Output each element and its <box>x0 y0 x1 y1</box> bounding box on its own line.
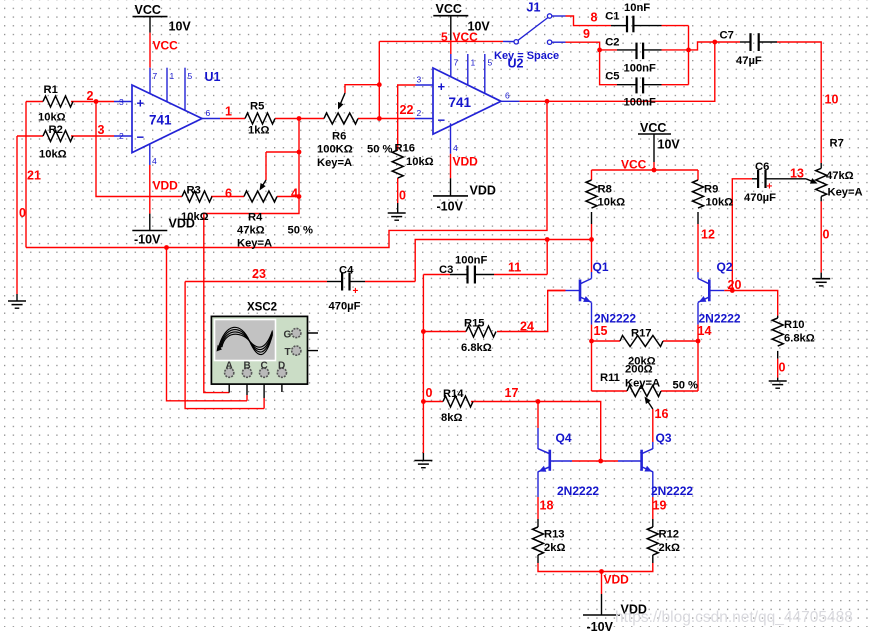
wire Q1 base red <box>548 290 566 292</box>
svg-text:6: 6 <box>225 187 232 201</box>
wire R17 left lead <box>592 340 621 342</box>
wire R16 gnd black <box>397 203 399 213</box>
wire C5 left black <box>617 84 637 86</box>
wire C2 left black <box>617 49 637 51</box>
svg-text:22: 22 <box>400 103 414 117</box>
wire U1 pin5 stub <box>184 68 186 111</box>
svg-text:741: 741 <box>149 113 172 128</box>
svg-text:18: 18 <box>540 499 554 513</box>
svg-text:-10V: -10V <box>437 200 464 214</box>
wire C7 left black <box>740 41 751 43</box>
svg-text:VDD: VDD <box>604 573 630 587</box>
svg-text:5: 5 <box>488 58 493 68</box>
svg-text:R8: R8 <box>598 184 612 196</box>
power bar VCC mid <box>638 133 671 135</box>
svg-text:8: 8 <box>591 11 598 25</box>
transistor Q4 <box>538 449 550 472</box>
wire R6 wiper to vertical <box>345 85 379 93</box>
wire Q2 emitter red <box>697 325 699 341</box>
wire C2 left red <box>600 49 617 51</box>
svg-text:2: 2 <box>417 108 422 118</box>
wire R8 bottom red <box>591 224 593 240</box>
wire U1 VDD red <box>149 165 151 214</box>
wire R10 bottom red <box>777 359 779 378</box>
capacitor C2 <box>637 43 644 60</box>
svg-text:7: 7 <box>153 71 158 81</box>
wire Q2 emitter blue <box>697 303 699 325</box>
wire J1 vertical x379 <box>378 41 380 118</box>
wire R1 right lead <box>71 101 96 103</box>
wire Q1 base stub <box>566 290 581 292</box>
svg-text:https://blog.csdn.net/qq_44705: https://blog.csdn.net/qq_44705488 <box>615 609 853 626</box>
svg-text:U1: U1 <box>205 70 221 84</box>
wire U1 pin6 stub <box>202 118 220 120</box>
svg-text:VCC: VCC <box>436 2 462 16</box>
svg-text:6: 6 <box>206 108 211 118</box>
svg-text:-10V: -10V <box>134 233 161 247</box>
wire U1 pin3 stub <box>114 101 132 103</box>
wire VCC stem mid red <box>653 162 655 170</box>
scope G lead <box>301 332 319 334</box>
svg-text:6.8kΩ: 6.8kΩ <box>784 333 815 345</box>
wire net21 feedback left vertical <box>25 102 27 248</box>
svg-text:16: 16 <box>655 407 669 421</box>
capacitor C6 <box>758 170 772 193</box>
wire R14 gnd red <box>422 452 424 454</box>
svg-text:7: 7 <box>454 58 459 68</box>
scope stub B <box>246 377 248 395</box>
wire Q4 base stub <box>550 460 572 462</box>
wire R1 left lead <box>26 101 43 103</box>
wire C6 left black <box>752 178 757 180</box>
svg-text:G: G <box>284 330 292 341</box>
svg-text:Key=A: Key=A <box>317 157 352 169</box>
wire Q4 collector red <box>537 402 539 429</box>
svg-text:100nF: 100nF <box>455 255 487 267</box>
potentiometer R7 wiper arrow <box>806 178 818 184</box>
svg-text:R2: R2 <box>49 124 63 136</box>
wire R3 right to R4 <box>211 196 244 198</box>
svg-text:R15: R15 <box>464 318 485 330</box>
wire R8 bottom black <box>591 212 593 224</box>
wire U2 pin1 stub <box>467 54 469 85</box>
svg-text:R13: R13 <box>544 529 565 541</box>
svg-text:VDD: VDD <box>169 217 195 231</box>
wire R14 left lead <box>423 401 443 403</box>
capacitor C7 <box>751 33 759 51</box>
svg-text:+: + <box>353 286 359 297</box>
resistor R2 <box>43 131 73 142</box>
resistor R13 <box>533 527 544 555</box>
wire R7 top black <box>820 163 822 168</box>
wire node1 to R5 <box>220 118 245 120</box>
junction VCC rail <box>652 168 657 173</box>
wire R11 right lead <box>661 390 698 392</box>
wire net23 C4 left <box>185 281 327 283</box>
wire U1 pin2 stub <box>114 135 132 137</box>
svg-text:T: T <box>285 347 291 358</box>
power bar VDD U1 <box>132 230 167 232</box>
power bar VCC U2 <box>433 15 468 17</box>
svg-text:VCC: VCC <box>621 158 647 172</box>
potentiometer R11 wiper arrow <box>645 397 653 410</box>
resistor R14 <box>443 396 473 407</box>
scope T lead <box>301 350 319 352</box>
wire R14 gnd black <box>422 453 424 461</box>
svg-text:1: 1 <box>471 58 476 68</box>
svg-text:VCC: VCC <box>453 30 479 44</box>
svg-text:14: 14 <box>698 324 712 338</box>
wire R7 bottom red <box>820 201 822 272</box>
wire caps to C7 node <box>689 42 715 50</box>
svg-text:C: C <box>261 361 268 372</box>
wire node20 to R10 <box>724 291 777 316</box>
wire U2 out to C7 <box>520 42 740 101</box>
svg-text:Key=A: Key=A <box>237 238 272 250</box>
wire U2 VDD red <box>450 154 452 178</box>
wire R12 bottom black <box>652 555 654 563</box>
svg-text:XSC2: XSC2 <box>247 302 277 314</box>
junction R4 wiper tie <box>297 150 302 155</box>
wire net11 rail <box>415 240 591 282</box>
wire U1 VCC stem red <box>149 33 151 68</box>
wire R7 bottom black2 <box>820 273 822 279</box>
wire node8 <box>566 16 612 26</box>
wire R4 wiper vertical <box>265 152 267 180</box>
svg-text:VCC: VCC <box>640 121 666 135</box>
svg-text:0: 0 <box>426 386 433 400</box>
svg-text:R10: R10 <box>784 319 805 331</box>
svg-text:470µF: 470µF <box>329 301 361 313</box>
wire C5 right red <box>662 84 689 86</box>
wire C7 right black <box>759 41 777 43</box>
svg-text:19: 19 <box>653 499 667 513</box>
resistor R8 <box>586 180 597 208</box>
wire C4 left black <box>327 281 342 283</box>
svg-text:6.8kΩ: 6.8kΩ <box>461 342 492 354</box>
svg-text:C3: C3 <box>439 264 453 276</box>
svg-text:20: 20 <box>728 278 742 292</box>
svg-text:11: 11 <box>508 261 521 275</box>
wire R13 top black <box>537 519 539 527</box>
wire R2 left lead <box>17 135 43 137</box>
svg-text:C1: C1 <box>605 11 619 23</box>
svg-text:J1: J1 <box>527 1 541 15</box>
power bar VDD bottom <box>583 614 620 616</box>
wire R5-R6 link <box>275 118 324 120</box>
svg-text:+: + <box>767 182 773 193</box>
wire Q1 collector blue <box>591 272 593 279</box>
wire R17 right lead <box>663 340 698 342</box>
svg-text:3: 3 <box>417 75 422 85</box>
resistor R17 <box>620 336 663 347</box>
junction R17 left <box>589 339 594 344</box>
scope stub B red <box>246 395 248 401</box>
scope stub C red <box>263 398 265 409</box>
svg-text:R6: R6 <box>332 131 346 143</box>
wire R10 top black <box>777 316 779 318</box>
svg-text:0: 0 <box>19 206 26 220</box>
svg-text:Q2: Q2 <box>717 260 733 274</box>
svg-text:2kΩ: 2kΩ <box>544 542 565 554</box>
svg-text:12: 12 <box>701 228 715 242</box>
junction R5-R6-R4 <box>297 116 302 121</box>
junction net21 scopeB <box>164 245 169 250</box>
svg-text:1: 1 <box>170 71 175 81</box>
svg-text:Key=A: Key=A <box>625 378 660 390</box>
wire R4 right up to node1 <box>277 119 299 197</box>
svg-text:17: 17 <box>505 386 519 400</box>
svg-text:15: 15 <box>594 324 608 338</box>
wire R10 bottom black1 <box>777 351 779 359</box>
svg-text:2N2222: 2N2222 <box>594 312 636 326</box>
wire U2 pin6 stub <box>501 100 520 102</box>
svg-text:10kΩ: 10kΩ <box>706 197 734 209</box>
svg-text:C2: C2 <box>605 37 619 49</box>
junction Q3Q4 base rail <box>598 459 603 464</box>
resistor R15 <box>466 326 496 337</box>
wire Q3 base stub <box>618 460 642 462</box>
wire C6 left vertical <box>732 179 752 291</box>
svg-text:R12: R12 <box>659 529 680 541</box>
wire node22 plus input <box>398 85 416 150</box>
svg-text:3: 3 <box>119 97 124 107</box>
wire C4 right lead red <box>365 281 415 283</box>
svg-text:B: B <box>244 361 251 372</box>
potentiometer R4 wiper arrow <box>260 180 267 191</box>
wire net21 horizontal <box>26 101 547 247</box>
wire R4 right down scopeA <box>204 197 299 393</box>
wire J1 throw2 out <box>552 41 566 43</box>
svg-text:0: 0 <box>779 361 786 375</box>
wire U1 pin7 stub <box>149 68 151 94</box>
wire R11 left vertical <box>591 341 593 391</box>
wire R2 right lead <box>71 135 114 137</box>
wire Q4 emitter red <box>537 497 539 519</box>
svg-text:Q1: Q1 <box>593 260 609 274</box>
wire C6 right black <box>766 178 806 180</box>
wire R9 bottom red to Q2 <box>697 224 699 272</box>
wire U2 pin3 stub <box>416 84 434 86</box>
wire Q3 collector blue <box>652 442 654 449</box>
wire VCC stem mid black <box>653 134 655 162</box>
svg-text:VCC: VCC <box>153 39 179 53</box>
wire U2 pin5 stub <box>484 54 486 93</box>
svg-text:10nF: 10nF <box>624 2 650 14</box>
wire C5 right black <box>643 84 661 86</box>
svg-text:47kΩ: 47kΩ <box>826 170 854 182</box>
wire U2 pin2 stub <box>415 118 433 120</box>
junction bottom rail <box>599 569 604 574</box>
wire Q1 emitter blue <box>591 303 593 325</box>
svg-text:R11: R11 <box>600 372 620 384</box>
wire R2 gnd black <box>16 294 18 301</box>
capacitor C3 <box>468 266 475 284</box>
resistor R9 <box>693 180 704 208</box>
potentiometer R4 body <box>244 191 277 202</box>
wire VDD3 stem black <box>601 594 603 615</box>
svg-text:10kΩ: 10kΩ <box>406 156 434 168</box>
junction C7 left <box>712 40 717 45</box>
junction R15 left <box>421 329 426 334</box>
svg-text:13: 13 <box>790 167 804 181</box>
capacitor C1 <box>627 16 633 33</box>
svg-text:4: 4 <box>291 187 298 201</box>
wire J1 pole line <box>379 40 503 42</box>
svg-text:−: − <box>137 130 145 145</box>
wire scopeB tap <box>167 248 248 401</box>
junction R17 right <box>696 339 701 344</box>
junction net17 mid <box>536 399 541 404</box>
wire net17 <box>471 402 601 462</box>
svg-text:2: 2 <box>119 131 124 141</box>
wire R4 wiper link <box>266 151 299 153</box>
resistor R10 <box>772 318 783 346</box>
wire C1 right black <box>633 25 661 27</box>
wire R9 bottom black <box>697 212 699 224</box>
svg-text:VDD: VDD <box>453 155 479 169</box>
svg-text:47kΩ: 47kΩ <box>237 225 265 237</box>
wire U1 pin4 stub <box>149 144 151 165</box>
wire Q4 base red mid <box>572 460 618 462</box>
wire C3 right lead red <box>494 274 547 276</box>
scope stub A <box>228 377 230 393</box>
ground R2 net0 <box>8 301 26 308</box>
power bar VDD U2 <box>433 195 468 197</box>
svg-text:2: 2 <box>87 89 94 103</box>
svg-text:R7: R7 <box>830 138 844 150</box>
svg-text:Q4: Q4 <box>556 431 572 445</box>
wire VCC rail <box>592 169 699 171</box>
svg-text:4: 4 <box>152 156 157 166</box>
svg-text:10kΩ: 10kΩ <box>38 112 66 124</box>
svg-text:R17: R17 <box>631 328 652 340</box>
svg-text:A: A <box>226 361 233 372</box>
svg-text:6: 6 <box>505 91 510 101</box>
svg-text:VDD: VDD <box>153 179 179 193</box>
ground R7 <box>812 279 830 286</box>
svg-text:470µF: 470µF <box>744 192 776 204</box>
wire Q2 base stub <box>709 290 724 292</box>
wire J1 throw1 to C1 <box>552 15 566 17</box>
wire C3 left <box>423 274 450 276</box>
svg-text:+: + <box>137 96 145 111</box>
junction caps right <box>686 48 691 53</box>
switch J1 <box>514 14 552 45</box>
wire R8 top lead <box>591 170 593 180</box>
wire U1 VCC stem black <box>149 17 151 33</box>
wire node2 down to R3 <box>96 102 182 197</box>
wire R6 right lead <box>358 118 415 120</box>
junction node20 <box>730 288 735 293</box>
svg-text:9: 9 <box>583 27 590 41</box>
wire R15 left lead <box>423 331 466 333</box>
oscilloscope XSC2 <box>211 316 307 384</box>
capacitor C4 <box>342 273 358 298</box>
svg-text:50 %: 50 % <box>367 144 393 156</box>
op-amp U1 <box>132 85 202 153</box>
junction node2 <box>94 99 99 104</box>
svg-text:Key = Space: Key = Space <box>494 50 559 62</box>
svg-text:5: 5 <box>188 71 193 81</box>
svg-text:C6: C6 <box>755 161 769 173</box>
resistor R3 <box>182 191 212 202</box>
svg-text:1: 1 <box>225 105 232 119</box>
svg-text:+: + <box>438 79 446 94</box>
svg-text:10: 10 <box>825 93 839 107</box>
svg-text:0: 0 <box>399 189 406 203</box>
wire VDD3 stem red <box>601 572 603 595</box>
svg-text:24: 24 <box>520 320 534 334</box>
wire R13 bottom black <box>537 555 539 563</box>
junction C2 left <box>597 48 602 53</box>
svg-text:4: 4 <box>453 143 458 153</box>
wire C3 left black <box>450 274 468 276</box>
svg-text:C4: C4 <box>339 265 354 277</box>
scope stub D <box>281 377 283 392</box>
svg-text:D: D <box>278 361 285 372</box>
svg-text:21: 21 <box>27 169 41 183</box>
wire C1 left black <box>611 25 627 27</box>
resistor R1 <box>43 96 73 107</box>
transistor Q3 <box>642 449 653 472</box>
svg-text:200Ω: 200Ω <box>625 364 653 376</box>
wire R11 wiper down <box>652 409 654 442</box>
svg-text:VCC: VCC <box>135 3 161 17</box>
svg-text:Key=A: Key=A <box>828 187 863 199</box>
resistor R5 <box>245 113 275 124</box>
svg-text:2N2222: 2N2222 <box>699 312 741 326</box>
junction net11 C3 <box>545 237 550 242</box>
svg-text:C7: C7 <box>720 30 734 42</box>
potentiometer R6 wiper arrow <box>338 93 345 110</box>
wire R15 right to Q1 base <box>497 291 566 332</box>
wire bottom rail <box>538 563 653 572</box>
junction R4 right <box>297 194 302 199</box>
wire J1 pole stub blue <box>503 40 514 42</box>
junction R8 bottom <box>589 237 594 242</box>
wire U2 pin7 stub <box>450 54 452 77</box>
svg-text:VDD: VDD <box>470 184 496 198</box>
junction R6 wiper x379 <box>377 82 382 87</box>
wire C3 right black <box>475 274 494 276</box>
scope stub C <box>263 377 265 398</box>
wire node2 to U1 pin3 <box>96 101 114 103</box>
svg-text:Q3: Q3 <box>656 431 672 445</box>
transistor Q1 <box>580 279 592 303</box>
svg-text:10V: 10V <box>169 20 192 34</box>
ground R10 <box>769 381 787 388</box>
wire U1 pin1 stub <box>166 68 168 102</box>
wire U2 VDD black <box>450 178 452 196</box>
wire Q1 collector red <box>591 240 593 273</box>
wire R9 top lead <box>697 170 699 180</box>
svg-text:R9: R9 <box>704 184 718 196</box>
wire C1 right red <box>662 25 689 27</box>
wire C4 right black <box>350 281 366 283</box>
svg-text:5: 5 <box>441 30 448 44</box>
svg-text:47µF: 47µF <box>736 55 762 67</box>
potentiometer R6 body <box>324 113 358 124</box>
wire U2 VCC stem black <box>450 16 452 40</box>
junction U2 out <box>545 99 550 104</box>
wire Q2 collector blue <box>697 272 699 279</box>
junction R14 left <box>421 399 426 404</box>
wire scopeC tap <box>185 282 264 409</box>
svg-text:R5: R5 <box>250 101 264 113</box>
ground R14 <box>414 461 432 468</box>
wire C3 up to net11 <box>546 240 548 275</box>
